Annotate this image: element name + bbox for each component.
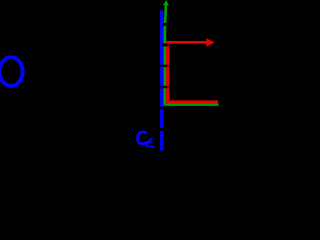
green wire: vertical then right at bottom — [165, 5, 219, 105]
wire: blue vertical line — [160, 10, 164, 150]
green arrowhead (up) — [163, 0, 169, 5]
tick mark 3 — [160, 65, 167, 67]
tick mark 4 — [160, 86, 167, 88]
red arrowhead (right) — [206, 38, 214, 46]
label C_L : subscript L (script, pound-like) stem — [146, 139, 152, 146]
tick mark 6 — [160, 128, 167, 131]
label C_L : letter C — [138, 132, 147, 144]
tick mark 2 (junction notch) — [162, 43, 169, 46]
node O (blue hand-drawn circle) — [0, 57, 23, 86]
red wire: down then right (L-shape) — [168, 43, 218, 102]
label C_L : subscript L bottom bar — [146, 146, 154, 147]
red arrow (right) shaft — [166, 41, 208, 44]
label C_L : subscript L crossbar — [147, 141, 152, 143]
tick mark 5 — [160, 107, 167, 109]
tick mark 1 (left-pointing notch) — [161, 23, 164, 26]
